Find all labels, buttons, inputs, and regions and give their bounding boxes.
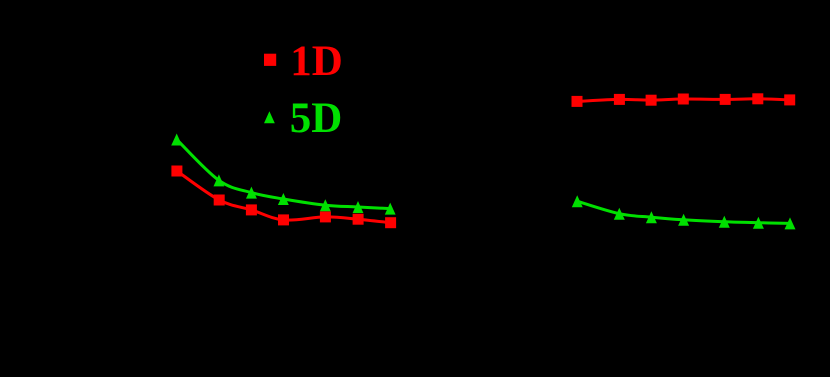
marker square point 1 bbox=[171, 166, 182, 177]
marker triangle point 5 bbox=[719, 216, 730, 228]
legend entry 5D bbox=[264, 95, 342, 142]
marker square point 5 bbox=[720, 94, 731, 105]
marker triangle point 1 bbox=[572, 195, 583, 207]
marker triangle point 2 bbox=[214, 174, 225, 186]
right panel: series 5D (green, triangles) bbox=[572, 195, 796, 229]
marker square point 4 bbox=[278, 214, 289, 225]
marker square point 1 bbox=[572, 96, 583, 107]
marker square point 6 bbox=[752, 93, 763, 104]
legend marker square 1D bbox=[264, 54, 276, 66]
left panel: series 1D (red, squares) bbox=[171, 166, 396, 229]
marker square point 7 bbox=[385, 217, 396, 228]
marker triangle point 7 bbox=[785, 217, 796, 229]
left panel: series 5D (green, triangles) bbox=[171, 134, 395, 215]
marker square point 4 bbox=[678, 94, 689, 105]
wire curve left 5D bbox=[177, 140, 391, 209]
legend marker triangle 5D bbox=[264, 111, 275, 123]
marker triangle point 5 bbox=[320, 199, 331, 211]
wire curve left 1D bbox=[177, 171, 391, 223]
legend entry 1D bbox=[264, 38, 343, 85]
marker triangle point 4 bbox=[278, 193, 289, 205]
marker triangle point 1 bbox=[171, 134, 182, 146]
marker triangle point 6 bbox=[753, 217, 764, 229]
marker square point 3 bbox=[246, 204, 257, 215]
marker square point 2 bbox=[614, 94, 625, 105]
marker triangle point 4 bbox=[678, 214, 689, 226]
marker triangle point 6 bbox=[353, 201, 364, 213]
right panel: series 1D (red, squares) bbox=[572, 93, 796, 107]
wire curve right 5D bbox=[577, 201, 790, 223]
marker square point 2 bbox=[214, 195, 225, 206]
svg-text:5D: 5D bbox=[290, 95, 343, 142]
marker triangle point 3 bbox=[646, 211, 657, 223]
marker square point 3 bbox=[646, 95, 657, 106]
marker triangle point 7 bbox=[385, 203, 396, 215]
marker triangle point 3 bbox=[246, 187, 257, 199]
svg-text:1D: 1D bbox=[290, 38, 343, 85]
marker square point 5 bbox=[320, 211, 331, 222]
marker triangle point 2 bbox=[614, 208, 625, 220]
marker square point 6 bbox=[353, 214, 364, 225]
wire curve right 1D bbox=[577, 99, 790, 102]
marker square point 7 bbox=[784, 94, 795, 105]
